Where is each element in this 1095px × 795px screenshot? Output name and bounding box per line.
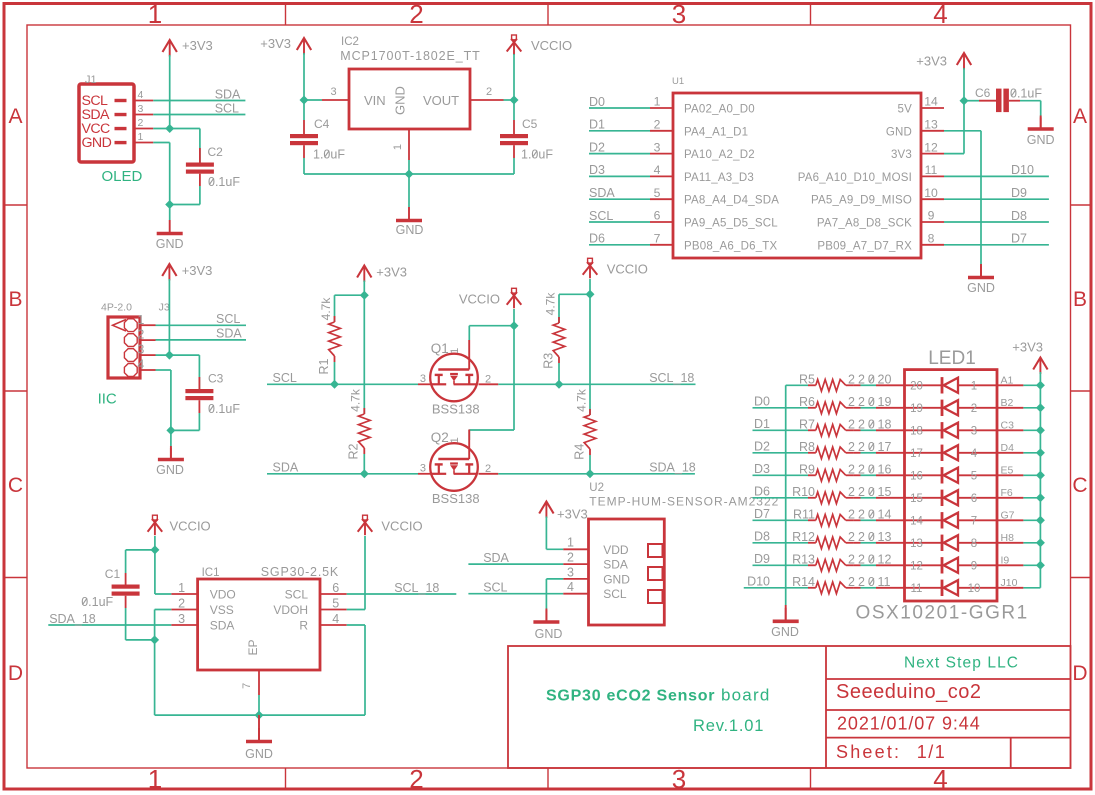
U2 pin 1 VDD [563, 548, 588, 550]
wire to C2 top [199, 129, 201, 163]
svg-text:0.1uF: 0.1uF [81, 595, 113, 609]
svg-text:SDA: SDA [483, 551, 509, 565]
wire +3V3 stem at U1 [963, 68, 965, 101]
svg-text:5: 5 [971, 470, 977, 482]
LED1 pin 12 [876, 564, 905, 566]
wire net D6 to U1 pin 7 [589, 244, 650, 246]
wire R7 to LED1 pin 18 [854, 429, 861, 431]
wire node to C5 [513, 100, 515, 120]
ground at LED [785, 605, 787, 620]
U2 pads [648, 544, 663, 557]
svg-text:11: 11 [911, 583, 923, 595]
node IC1 VSS junction [150, 635, 159, 644]
capacitor C1 [112, 585, 140, 589]
svg-text:PA8_A4_D4_SDA: PA8_A4_D4_SDA [684, 195, 779, 207]
wire R6 to LED1 pin 19 [854, 407, 861, 409]
node J3 GND junction [166, 426, 175, 435]
node IC2 output junction [510, 96, 519, 105]
wire D6 to R10 [753, 497, 809, 499]
wire to C3 top [198, 355, 200, 389]
svg-text:B: B [8, 288, 22, 311]
node gnd bus junction [405, 170, 414, 179]
IC2 pin 2 VOUT [470, 99, 504, 101]
led diode row 9 [905, 564, 943, 566]
svg-text:H8: H8 [1001, 532, 1015, 544]
power +3V3 at LED [1033, 358, 1047, 370]
svg-text:+3V3: +3V3 [182, 263, 213, 278]
svg-text:IC1: IC1 [202, 567, 220, 579]
led diode row 7 [905, 519, 943, 521]
svg-text:SCL: SCL [215, 101, 239, 115]
svg-text:IC2: IC2 [341, 36, 359, 48]
wire J1 pin2 VCC [153, 128, 200, 130]
title block row line 1 [826, 678, 1071, 680]
svg-text:5V: 5V [898, 104, 913, 116]
U1 pin 3 PA10_A2_D2 [650, 153, 673, 155]
svg-text:R: R [299, 619, 308, 633]
svg-text:SCL: SCL [285, 588, 309, 602]
svg-text:220: 220 [848, 373, 878, 387]
IC1 pin 7 [258, 670, 260, 695]
node rail junction [1036, 538, 1045, 547]
frame row tick marks [4, 204, 27, 206]
wire to ground at J3 [170, 430, 172, 448]
ground at U1 [980, 266, 982, 276]
svg-text:19: 19 [910, 403, 923, 415]
wire IC1 pin4 to gnd bus [347, 624, 365, 626]
svg-text:7: 7 [241, 683, 253, 689]
node J3 VCC junction [165, 351, 174, 360]
svg-text:2: 2 [486, 86, 492, 98]
LED1 pin 2 [997, 407, 1023, 409]
svg-text:D0: D0 [754, 395, 770, 409]
wire D2 to R8 [753, 452, 809, 454]
wire VCCIO stem at shifter [513, 309, 515, 326]
svg-text:PA7_A8_D8_SCK: PA7_A8_D8_SCK [817, 218, 912, 230]
wire LED1 pin 5 to 3V3 rail [1023, 474, 1040, 476]
svg-text:D8: D8 [1011, 209, 1027, 223]
svg-text:1: 1 [178, 581, 185, 595]
wire R9 to LED1 pin 16 [854, 474, 861, 476]
capacitor C6 [996, 89, 1002, 113]
svg-text:D3: D3 [589, 163, 605, 177]
svg-text:R5: R5 [799, 373, 815, 387]
svg-text:C2: C2 [208, 145, 224, 159]
ground at J3 [170, 448, 172, 458]
resistor R14 [808, 587, 816, 589]
wire D1 to R7 [753, 429, 809, 431]
svg-text:C3: C3 [208, 372, 224, 386]
J3 polarity mark [113, 320, 127, 332]
svg-text:PA9_A5_D5_SCL: PA9_A5_D5_SCL [684, 218, 778, 230]
svg-text:SCL: SCL [273, 371, 297, 385]
wire J1 pin4 to SDA [153, 100, 245, 102]
title block divider vertical [825, 646, 827, 768]
svg-text:3V3: 3V3 [891, 149, 912, 161]
svg-text:220: 220 [848, 508, 878, 522]
svg-text:board: board [721, 686, 770, 705]
svg-text:3: 3 [672, 0, 686, 29]
wire Q1 drain to VCCIO [468, 326, 470, 340]
wire net SCL to U1 pin 6 [589, 221, 650, 223]
svg-text:PA11_A3_D3: PA11_A3_D3 [684, 172, 754, 184]
LED1 pin 20 [876, 384, 905, 386]
wire node to C1 [126, 549, 155, 551]
wire U1 to net D7 [944, 244, 1049, 246]
svg-text:R1: R1 [317, 358, 331, 374]
wire VCCIO stem [513, 54, 515, 100]
LED1 pin 4 [997, 452, 1023, 454]
svg-text:D9: D9 [1011, 186, 1027, 200]
svg-text:1: 1 [138, 131, 144, 143]
svg-text:4: 4 [138, 89, 144, 101]
svg-text:0.1uF: 0.1uF [1010, 87, 1042, 101]
IC1 pin 1 VDO [171, 593, 197, 595]
capacitor C5 [500, 134, 528, 138]
J1 pin 3 [134, 114, 153, 116]
svg-text:C: C [1072, 474, 1087, 497]
IC2 pin 1 GND [408, 129, 410, 160]
wire U1 to net D8 [944, 221, 1049, 223]
svg-text:13: 13 [878, 530, 892, 544]
svg-text:220: 220 [848, 440, 878, 454]
svg-text:E5: E5 [1001, 464, 1014, 476]
svg-text:GND: GND [393, 86, 408, 115]
ground at C6 [1040, 118, 1042, 128]
wire VCCIO to IC1 pin5 [364, 536, 366, 610]
svg-text:GND: GND [82, 135, 112, 151]
svg-text:15: 15 [910, 493, 923, 505]
wire gnd rail at LED [785, 385, 787, 605]
Q2 pin 2 [479, 473, 499, 475]
wire VSS node to gnd bus [154, 640, 156, 715]
wire D7 to R11 [753, 519, 809, 521]
node rail junction [1036, 516, 1045, 525]
J3 pin 2 [124, 334, 137, 347]
svg-text:14: 14 [924, 95, 938, 109]
led diode row 1 [905, 384, 943, 386]
wire LED1 pin 4 to 3V3 rail [1023, 452, 1040, 454]
svg-text:C5: C5 [522, 117, 538, 131]
svg-text:TEMP-HUM-SENSOR-AM2322: TEMP-HUM-SENSOR-AM2322 [589, 495, 779, 509]
svg-text:13: 13 [910, 538, 923, 550]
node rail junction [1036, 381, 1045, 390]
svg-text:12: 12 [924, 140, 938, 154]
svg-text:3: 3 [971, 425, 977, 437]
svg-text:SDA: SDA [215, 87, 241, 101]
wire C1 bottom [125, 596, 127, 608]
wire J3 pin1 to SCL [156, 324, 247, 326]
svg-text:R8: R8 [799, 440, 815, 454]
Q1 pin 3 [418, 383, 432, 385]
svg-text:3: 3 [420, 463, 426, 475]
svg-text:3: 3 [178, 612, 185, 626]
wire SDA_18 [498, 473, 695, 475]
LED1 pin 6 [997, 497, 1023, 499]
node R1 SCL junction [330, 380, 339, 389]
svg-text:17: 17 [878, 440, 892, 454]
svg-text:2: 2 [485, 374, 491, 386]
U1 pin 9 PA7_A8_D8_SCK [921, 221, 944, 223]
LED1 pin 9 [997, 564, 1023, 566]
wire SCL_18 [498, 383, 695, 385]
wire pin2 to VCCIO node [504, 99, 515, 101]
LED1 pin 10 [997, 587, 1023, 589]
resistor R12 [808, 542, 816, 544]
node rail junction [1036, 493, 1045, 502]
IC1 pin 6 SCL [320, 593, 347, 595]
svg-text:SDA: SDA [273, 461, 299, 475]
svg-text:220: 220 [848, 463, 878, 477]
svg-text:OSX10201-GGR1: OSX10201-GGR1 [856, 603, 1029, 624]
U1 pin 11 PA6_A10_D10_MOSI [921, 175, 944, 177]
power VCCIO at shifter [512, 288, 517, 293]
U1 pin 6 PA9_A5_D5_SCL [650, 221, 673, 223]
svg-text:J3: J3 [159, 302, 170, 314]
svg-text:+3V3: +3V3 [376, 265, 407, 280]
led diode row 10 [905, 587, 943, 589]
microcontroller U1 [673, 93, 921, 258]
wire IC1 pin6 to SCL_18 [347, 593, 457, 595]
svg-text:BSS138: BSS138 [432, 402, 480, 417]
J1 pin 2 [134, 128, 153, 130]
svg-text:C: C [8, 474, 23, 497]
svg-text:0.1uF: 0.1uF [208, 402, 240, 416]
U1 pin 1 PA02_A0_D0 [650, 107, 673, 109]
svg-text:VCCIO: VCCIO [170, 519, 211, 534]
svg-text:VOUT: VOUT [423, 93, 459, 108]
J3 pin 3 [124, 349, 137, 362]
svg-text:D2: D2 [754, 440, 770, 454]
svg-text:20: 20 [910, 380, 923, 392]
LED1 pin 7 [997, 519, 1023, 521]
svg-text:2: 2 [654, 118, 661, 132]
node rail junction [1036, 426, 1045, 435]
svg-text:BSS138: BSS138 [432, 491, 480, 506]
wire R13 to LED1 pin 12 [854, 564, 861, 566]
svg-text:VCCIO: VCCIO [607, 262, 648, 277]
node pullup junction [360, 291, 369, 300]
wire net D2 to U1 pin 3 [589, 153, 650, 155]
svg-text:4.7k: 4.7k [349, 388, 363, 412]
wire R1 top [335, 294, 365, 296]
wire J3 pin4 GND [156, 369, 171, 371]
led array LED1 [905, 370, 998, 601]
svg-text:VIN: VIN [364, 93, 386, 108]
svg-text:D8: D8 [754, 530, 770, 544]
svg-text:R9: R9 [799, 463, 815, 477]
title block row line 2 [826, 709, 1071, 711]
LED1 pin 1 [997, 384, 1023, 386]
svg-text:D6: D6 [589, 232, 605, 246]
node rail junction [1036, 448, 1045, 457]
svg-text:3: 3 [654, 140, 661, 154]
svg-text:220: 220 [848, 575, 878, 589]
wire IC1 pin2 VSS [155, 609, 172, 611]
wire LED1 pin 10 to 3V3 rail [1023, 587, 1040, 589]
svg-text:1: 1 [137, 313, 144, 327]
wire LED1 pin 9 to 3V3 rail [1023, 564, 1040, 566]
svg-text:6: 6 [654, 209, 661, 223]
LED1 pin 19 [876, 407, 905, 409]
wire VCCIO stem at IC1 [154, 536, 156, 550]
Q2 pin 3 [418, 473, 432, 475]
LED1 pin 15 [876, 497, 905, 499]
svg-text:D3: D3 [754, 462, 770, 476]
wire U2 pin3 to ground [546, 578, 563, 580]
resistor R3 [558, 294, 560, 323]
wire R5 to LED1 pin 20 [854, 384, 861, 386]
resistor R13 [808, 564, 816, 566]
svg-text:SCL_18: SCL_18 [394, 581, 439, 595]
svg-text:D1: D1 [589, 118, 605, 132]
node R2 SDA junction [360, 469, 369, 478]
wire VCCIO to Q2 drain [513, 326, 515, 430]
power +3V3 at IC2 input [297, 38, 311, 50]
svg-text:1: 1 [449, 437, 461, 443]
wire D0 to R6 [753, 407, 809, 409]
svg-text:1: 1 [971, 380, 977, 392]
wire +3V3 stem to node [303, 53, 305, 100]
wire C6 right to ground [1009, 100, 1020, 102]
svg-text:VDO: VDO [210, 588, 236, 602]
U2 pin 4 SCL [563, 593, 588, 595]
capacitor C4 [290, 134, 318, 138]
svg-text:3: 3 [567, 565, 574, 579]
svg-text:I9: I9 [1001, 554, 1010, 566]
svg-text:4: 4 [137, 358, 144, 372]
node rail junction [1036, 471, 1045, 480]
svg-text:PB09_A7_D7_RX: PB09_A7_D7_RX [817, 240, 912, 252]
svg-text:Sheet:: Sheet: [836, 742, 901, 762]
svg-text:11: 11 [925, 163, 938, 177]
svg-text:8: 8 [971, 538, 977, 550]
svg-text:1.0uF: 1.0uF [313, 148, 345, 162]
svg-text:Q1: Q1 [431, 341, 449, 356]
svg-text:SDA_18: SDA_18 [649, 461, 696, 475]
svg-text:2: 2 [567, 551, 574, 565]
wire pin1 to bus [408, 160, 410, 174]
svg-text:R12: R12 [792, 530, 815, 544]
svg-text:Rev.1.01: Rev.1.01 [693, 717, 764, 735]
resistor R11 [808, 519, 816, 521]
svg-text:GND: GND [603, 572, 630, 586]
wire bus to ground symbol [408, 174, 410, 207]
svg-text:GND: GND [396, 223, 424, 237]
wire C4 bottom to gnd bus [303, 145, 305, 158]
wire LED1 pin 2 to 3V3 rail [1023, 407, 1040, 409]
svg-text:5: 5 [654, 186, 661, 200]
wire J1 pin1 GND [153, 142, 169, 144]
svg-text:U1: U1 [672, 76, 684, 87]
svg-text:12: 12 [878, 553, 892, 567]
node rail junction [1036, 403, 1045, 412]
wire R10 to LED1 pin 15 [854, 497, 861, 499]
svg-text:1/1: 1/1 [917, 742, 947, 762]
LED1 pin 5 [997, 474, 1023, 476]
wire D9 to R13 [753, 564, 809, 566]
wire C3 bottom [198, 400, 200, 413]
led diode row 2 [905, 407, 943, 409]
U1 pin 12 3V3 [921, 153, 944, 155]
svg-text:D: D [8, 662, 23, 685]
svg-text:10: 10 [924, 186, 938, 200]
svg-text:1: 1 [567, 536, 574, 550]
connector J3 [108, 317, 140, 378]
svg-text:1: 1 [148, 0, 162, 29]
svg-text:VDOH: VDOH [273, 603, 308, 617]
svg-text:GND: GND [886, 126, 912, 138]
svg-text:R10: R10 [792, 485, 815, 499]
wire +3V3 stem to VCC node [169, 55, 171, 129]
wire C5 bottom to bus [513, 145, 515, 158]
sensor IC1 [198, 579, 320, 670]
wire SDA to U2 pin2 [468, 563, 563, 565]
svg-text:GND: GND [967, 281, 995, 295]
LED1 pin 17 [876, 452, 905, 454]
wire to ground symbol [169, 205, 171, 221]
svg-text:4.7k: 4.7k [319, 297, 333, 321]
power +3V3 at U1 [957, 53, 971, 65]
svg-text:9: 9 [971, 560, 977, 572]
power +3V3 at J3 [162, 264, 176, 276]
svg-text:4: 4 [567, 580, 574, 594]
wire IC1 pin7 to gnd bus [258, 695, 260, 715]
IC2 pin 3 VIN [322, 99, 349, 101]
node VCC junction [165, 124, 174, 133]
resistor R5 [808, 384, 816, 386]
wire net D3 to U1 pin 4 [589, 175, 650, 177]
LED1 pin 13 [876, 542, 905, 544]
node IC1 gnd junction [255, 711, 264, 720]
svg-text:C3: C3 [1001, 419, 1015, 431]
svg-text:16: 16 [878, 463, 892, 477]
led diode row 8 [905, 542, 943, 544]
svg-text:D7: D7 [754, 507, 770, 521]
svg-text:SGP30 eCO2 Sensor: SGP30 eCO2 Sensor [546, 688, 715, 705]
svg-text:15: 15 [878, 485, 892, 499]
wire LED1 pin 7 to 3V3 rail [1023, 519, 1040, 521]
wire net D1 to U1 pin 2 [589, 130, 650, 132]
svg-text:2: 2 [138, 117, 144, 129]
ground at IC2 [408, 207, 410, 219]
svg-text:16: 16 [910, 470, 923, 482]
wire net SDA to U1 pin 5 [589, 198, 650, 200]
connector J1 [79, 84, 134, 162]
svg-text:R2: R2 [347, 443, 361, 459]
svg-text:+3V3: +3V3 [557, 507, 588, 522]
frame column tick marks [285, 4, 287, 26]
IC1 pin 5 VDOH [320, 609, 347, 611]
wire J1 pin3 to SCL [153, 114, 245, 116]
svg-text:+3V3: +3V3 [182, 38, 213, 53]
wire U1 pin12 3V3 [944, 153, 964, 155]
LED1 pin 3 [997, 429, 1023, 431]
U1 pin 7 PB08_A6_D6_TX [650, 244, 673, 246]
svg-text:PA6_A10_D10_MOSI: PA6_A10_D10_MOSI [798, 172, 912, 184]
svg-text:3: 3 [138, 103, 144, 115]
svg-text:J10: J10 [1001, 577, 1018, 589]
svg-text:SGP30-2.5K: SGP30-2.5K [261, 565, 339, 579]
wire SDA bus [267, 473, 418, 475]
svg-text:D2: D2 [589, 140, 605, 154]
wire node to pin3 [304, 99, 322, 101]
svg-text:17: 17 [910, 448, 923, 460]
LED1 pin 18 [876, 429, 905, 431]
svg-text:PA02_A0_D0: PA02_A0_D0 [684, 104, 755, 116]
svg-text:1.0uF: 1.0uF [521, 148, 553, 162]
U1 pin 8 PB09_A7_D7_RX [921, 244, 944, 246]
